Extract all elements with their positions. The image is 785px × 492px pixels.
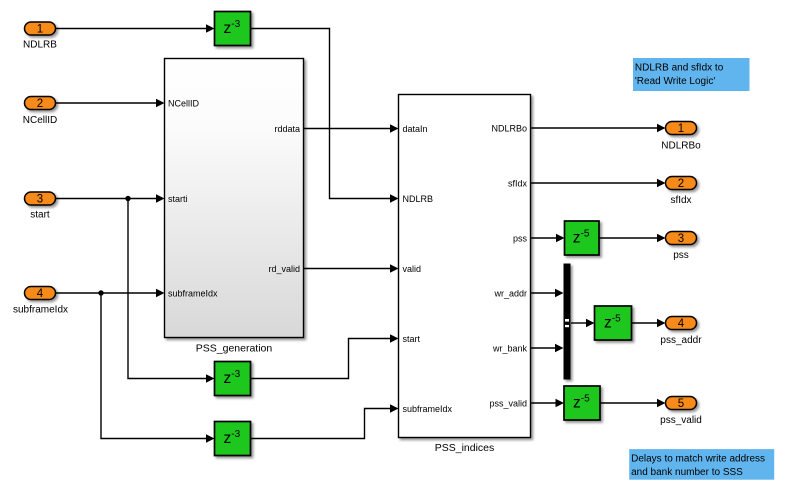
- svg-text:3: 3: [37, 194, 43, 206]
- svg-text:4: 4: [37, 288, 44, 300]
- svg-text:3: 3: [678, 233, 684, 245]
- svg-text:dataIn: dataIn: [403, 124, 428, 134]
- svg-text:subframeIdx: subframeIdx: [13, 305, 68, 316]
- svg-text:wr_bank: wr_bank: [492, 344, 528, 354]
- svg-text:subframeIdx: subframeIdx: [403, 404, 453, 414]
- svg-text:PSS_generation: PSS_generation: [196, 343, 273, 355]
- svg-text:NDLRBo: NDLRBo: [661, 141, 701, 152]
- svg-text:rd_valid: rd_valid: [268, 264, 300, 274]
- svg-text:starti: starti: [168, 194, 188, 204]
- svg-text:start: start: [403, 334, 421, 344]
- svg-text:subframeIdx: subframeIdx: [168, 289, 218, 299]
- svg-text:pss_valid: pss_valid: [489, 399, 527, 409]
- svg-text:NDLRB: NDLRB: [403, 194, 434, 204]
- svg-text:start: start: [30, 210, 50, 221]
- svg-text:PSS_indices: PSS_indices: [435, 442, 495, 454]
- svg-text:sfIdx: sfIdx: [670, 195, 691, 206]
- svg-text:pss_valid: pss_valid: [660, 415, 702, 426]
- svg-text:pss: pss: [513, 234, 528, 244]
- svg-text:1: 1: [678, 123, 684, 135]
- svg-text:NDLRBo: NDLRBo: [491, 124, 527, 134]
- svg-text:pss: pss: [673, 250, 689, 261]
- svg-text:'Read Write Logic': 'Read Write Logic': [635, 76, 715, 87]
- svg-text:NDLRB and sfIdx to: NDLRB and sfIdx to: [635, 63, 724, 74]
- svg-text:NCellID: NCellID: [23, 115, 57, 126]
- svg-text:NCellID: NCellID: [168, 99, 200, 109]
- svg-text:Delays to match write address: Delays to match write address: [631, 454, 765, 465]
- svg-text:rddata: rddata: [274, 124, 300, 134]
- svg-text:5: 5: [678, 398, 684, 410]
- svg-text:wr_addr: wr_addr: [493, 289, 527, 299]
- svg-text:2: 2: [37, 98, 43, 110]
- svg-text:4: 4: [678, 318, 685, 330]
- svg-text:2: 2: [678, 178, 684, 190]
- svg-text:and bank number to SSS: and bank number to SSS: [631, 467, 743, 478]
- svg-text:valid: valid: [403, 264, 422, 274]
- svg-text:sfIdx: sfIdx: [508, 179, 528, 189]
- svg-text:NDLRB: NDLRB: [23, 39, 57, 50]
- svg-text:1: 1: [37, 24, 43, 36]
- svg-text:pss_addr: pss_addr: [660, 335, 702, 346]
